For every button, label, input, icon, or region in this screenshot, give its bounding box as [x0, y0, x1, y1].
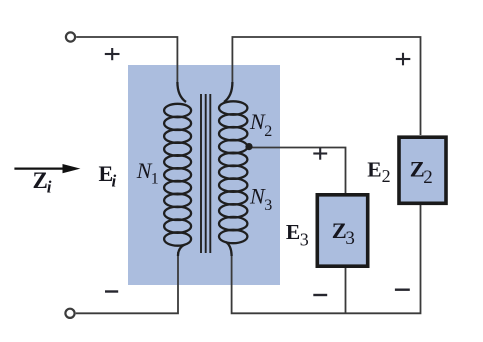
- svg-text:2: 2: [382, 166, 391, 186]
- minus bottom-left: [105, 290, 118, 292]
- input impedance arrow Zi: [14, 168, 66, 170]
- transformer shaded region: [128, 65, 280, 285]
- svg-text:i: i: [112, 171, 117, 190]
- impedance Z3 box: [317, 195, 367, 266]
- svg-text:3: 3: [345, 228, 355, 249]
- terminal top-left: [66, 32, 75, 41]
- plus top-right: [396, 53, 411, 66]
- wire primary bottom to terminal: [76, 252, 178, 313]
- tap wire to Z3: [250, 148, 346, 195]
- terminal bottom-left: [65, 309, 74, 318]
- plus at Z3 top: [313, 148, 327, 160]
- svg-text:3: 3: [300, 229, 309, 249]
- tap node dot: [245, 143, 252, 150]
- svg-text:2: 2: [423, 167, 433, 188]
- secondary winding N2/N3: [219, 82, 247, 256]
- plus top-left: [105, 48, 120, 60]
- wire secondary top to Z2: [232, 37, 420, 135]
- svg-text:E: E: [367, 158, 381, 182]
- svg-text:2: 2: [264, 123, 272, 140]
- svg-text:3: 3: [264, 197, 272, 214]
- wire Z3 bottom to rail: [345, 267, 347, 313]
- impedance Z2 box: [399, 137, 446, 203]
- primary winding N1: [164, 82, 191, 256]
- core lines: [200, 94, 202, 253]
- minus at Z2 bottom: [395, 289, 410, 291]
- svg-text:i: i: [47, 178, 52, 197]
- minus at Z3 bottom: [313, 294, 327, 296]
- wire top-left to primary: [76, 37, 177, 84]
- svg-text:1: 1: [151, 171, 159, 188]
- svg-text:Z: Z: [33, 168, 48, 193]
- wire secondary bottom rail to Z2 bottom: [232, 205, 421, 313]
- svg-text:E: E: [286, 220, 300, 244]
